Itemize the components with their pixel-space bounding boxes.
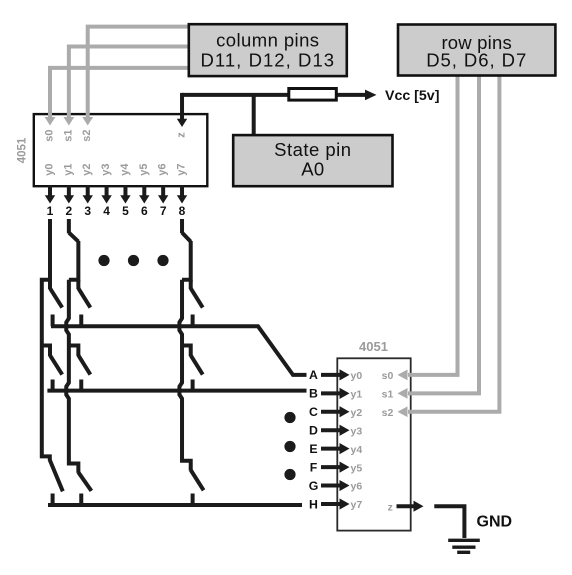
svg-text:y5: y5 — [138, 163, 150, 175]
svg-text:E: E — [309, 442, 317, 456]
svg-text:GND: GND — [477, 514, 513, 531]
svg-text:s2: s2 — [382, 407, 394, 419]
svg-text:4: 4 — [103, 204, 110, 218]
svg-text:F: F — [310, 460, 318, 474]
svg-text:A: A — [309, 368, 318, 382]
svg-text:D5, D6, D7: D5, D6, D7 — [426, 50, 527, 71]
svg-text:s1: s1 — [62, 129, 74, 141]
svg-text:8: 8 — [179, 204, 186, 218]
svg-text:y2: y2 — [351, 407, 363, 419]
svg-text:s2: s2 — [81, 129, 93, 141]
svg-text:D11, D12, D13: D11, D12, D13 — [200, 49, 335, 70]
svg-text:4051: 4051 — [359, 339, 388, 354]
svg-text:z: z — [388, 501, 393, 513]
svg-text:y7: y7 — [176, 163, 188, 175]
svg-text:H: H — [309, 497, 318, 511]
svg-text:3: 3 — [84, 204, 91, 218]
svg-text:s0: s0 — [44, 129, 56, 141]
svg-text:s0: s0 — [382, 370, 394, 382]
svg-text:y3: y3 — [351, 425, 363, 437]
svg-text:G: G — [309, 479, 319, 493]
svg-text:B: B — [309, 387, 318, 401]
svg-text:y1: y1 — [351, 389, 363, 401]
svg-text:A0: A0 — [301, 158, 324, 179]
svg-text:4051: 4051 — [17, 137, 29, 163]
svg-text:s1: s1 — [382, 389, 394, 401]
svg-text:z: z — [176, 132, 188, 138]
svg-text:D: D — [309, 424, 318, 438]
svg-text:y4: y4 — [119, 163, 131, 176]
svg-text:y5: y5 — [351, 462, 363, 474]
svg-text:7: 7 — [160, 204, 167, 218]
svg-text:2: 2 — [66, 204, 73, 218]
svg-text:y2: y2 — [81, 163, 93, 175]
svg-text:6: 6 — [141, 204, 148, 218]
svg-text:y1: y1 — [62, 163, 74, 175]
svg-text:State pin: State pin — [274, 139, 351, 160]
svg-text:y6: y6 — [351, 481, 363, 493]
svg-text:y0: y0 — [351, 370, 363, 382]
svg-text:C: C — [309, 405, 318, 419]
svg-text:y7: y7 — [351, 499, 363, 511]
svg-text:5: 5 — [122, 204, 129, 218]
svg-text:Vcc [5v]: Vcc [5v] — [385, 88, 439, 104]
svg-text:1: 1 — [47, 204, 54, 218]
svg-text:y6: y6 — [157, 163, 169, 175]
svg-text:y0: y0 — [44, 163, 56, 175]
svg-text:column pins: column pins — [216, 30, 319, 51]
svg-text:y4: y4 — [351, 444, 363, 456]
svg-text:y3: y3 — [100, 163, 112, 175]
